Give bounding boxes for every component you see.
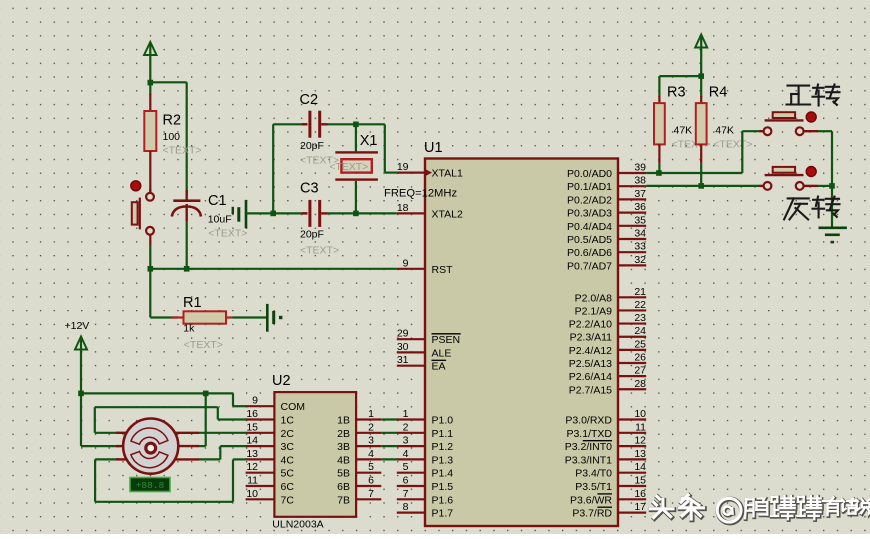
svg-text:14: 14 [634,461,646,473]
+12V label [65,320,90,332]
svg-text:P1.6: P1.6 [432,494,454,506]
pin 13 4C (U2 left) [246,448,295,467]
svg-text:<TEXT>: <TEXT> [329,161,368,173]
resistor R1 [172,311,233,323]
svg-text:1: 1 [368,408,374,420]
svg-text:11: 11 [635,421,646,433]
wire: P0.1 pin38 net to R4 and button SW3 [646,163,760,189]
pin 10 P3.0/RXD (U1 right) [565,408,646,427]
svg-text:39: 39 [634,162,646,174]
resistor R3 [654,96,665,163]
power +5V arrow symbol (top left) [144,42,156,82]
wire: top rail joining R3 R4 [659,73,704,97]
svg-text:13: 13 [246,448,258,460]
svg-text:47K: 47K [674,125,693,137]
op-amp U1 body (8051 MCU) [425,159,618,527]
svg-text:P2.4/A12: P2.4/A12 [569,345,612,357]
svg-text:P0.5/AD5: P0.5/AD5 [567,234,612,246]
svg-text:16: 16 [246,408,258,420]
svg-text:P1.0: P1.0 [432,415,454,427]
pin 3 P1.2 (U1 left) [397,435,453,454]
pin 30 ALE (U1 left) [397,341,452,360]
wire: SW1 bottom to RST rail [149,246,151,269]
svg-text:XTAL2: XTAL2 [432,208,463,220]
pin 34 P0.5/AD5 (U1 right) [567,228,646,247]
svg-text:26: 26 [634,352,646,364]
pin 33 P0.6/AD6 (U1 right) [567,241,646,260]
svg-text:COM: COM [281,401,306,413]
svg-text:3: 3 [403,435,409,447]
R2 labels [163,113,202,157]
wire: power rail to R2 top and C1 branch [148,80,187,195]
svg-text:P0.6/AD6: P0.6/AD6 [567,247,612,259]
svg-text:7C: 7C [281,494,295,506]
svg-text:P1.2: P1.2 [432,441,454,453]
svg-text:3C: 3C [281,441,295,453]
pin 1 1B (U2 right) [337,408,381,427]
svg-text:P2.3/A11: P2.3/A11 [570,332,613,344]
pin 27 P2.6/A14 (U1 right) [569,365,646,384]
svg-text:12: 12 [246,461,258,473]
svg-text:31: 31 [397,354,409,366]
svg-text:P1.4: P1.4 [432,468,454,480]
push-button SW1 (vertical, left) [132,189,154,246]
svg-text:17: 17 [634,501,646,513]
svg-text:U1: U1 [424,140,443,156]
pin 29 PSEN (U1 left) [397,328,461,347]
pin 12 5C (U2 left) [246,461,295,480]
power arrow symbol (top right) [695,35,707,77]
svg-text:1: 1 [403,408,409,420]
svg-text:RST: RST [432,264,454,276]
svg-text:<TEXT>: <TEXT> [184,339,223,351]
svg-text:C3: C3 [300,181,319,197]
pin 35 P0.4/AD4 (U1 right) [567,214,646,233]
svg-text:EA: EA [432,361,446,373]
svg-text:4: 4 [368,448,374,460]
pin 11 6C (U2 left) [246,475,295,494]
svg-text:P0.7/AD7: P0.7/AD7 [567,260,612,272]
svg-text:13: 13 [634,448,646,460]
svg-text:15: 15 [634,475,646,487]
svg-text:5C: 5C [281,468,295,480]
svg-text:C1: C1 [208,193,227,209]
svg-text:34: 34 [634,228,646,240]
U2 value label ULN2003A [272,519,323,531]
pin 23 P2.2/A10 (U1 right) [569,312,646,331]
svg-text:10: 10 [634,408,646,420]
svg-text:6C: 6C [281,481,295,493]
pin 15 2C (U2 left) [246,421,295,440]
svg-text:14: 14 [246,435,258,447]
svg-text:10uF: 10uF [208,214,232,226]
svg-text:ULN2003A: ULN2003A [272,519,323,531]
svg-text:10: 10 [246,488,258,500]
svg-text:30: 30 [397,341,409,353]
wire: motor left-bottom pin loop to U2 4C [95,459,246,501]
svg-text:24: 24 [634,325,646,337]
U1 reference label [424,140,443,156]
svg-text:27: 27 [634,365,646,377]
svg-text:P2.6/A14: P2.6/A14 [569,371,612,383]
svg-text:+12V: +12V [65,320,90,332]
svg-text:11: 11 [247,475,258,487]
svg-text:8: 8 [403,501,409,513]
wire: P0.0 pin39 net to R3 and button SW2 [646,131,760,176]
C3 labels [300,181,339,257]
svg-text:ALE: ALE [432,347,452,359]
wire: RST rail down to R1 [150,269,178,318]
svg-text:4B: 4B [337,454,350,466]
svg-text:P3.4/T0: P3.4/T0 [575,468,612,480]
pin 8 P1.7 (U1 left) [397,501,453,519]
svg-text:37: 37 [634,188,646,200]
svg-text:5B: 5B [337,468,350,480]
pin 3 3B (U2 right) [337,435,381,454]
svg-text:16: 16 [634,488,646,500]
wire: X1 bottom to C3 node [353,181,359,216]
push-button SW3 (reverse) [760,167,819,190]
svg-text:4C: 4C [281,454,295,466]
wire: C2 node down to crystal X1 top [353,122,359,153]
svg-text:P3.3/INT1: P3.3/INT1 [565,454,612,466]
pin 21 P2.0/A8 (U1 right) [575,286,647,305]
pin 2 P1.1 (U1 left) [397,421,453,440]
resistor R4 [696,96,707,163]
svg-text:100: 100 [163,131,181,143]
resistor R2 [144,82,156,162]
svg-text:U2: U2 [272,373,291,389]
pin 2 2B (U2 right) [337,421,381,440]
svg-text:P0.2/AD2: P0.2/AD2 [567,194,612,206]
svg-text:C2: C2 [300,92,319,108]
svg-text:R1: R1 [183,295,202,311]
SW2 red actuator dot [806,112,816,122]
pin 9 COM (U2 left) [246,395,305,414]
pin 39 P0.0/AD0 (U1 right) [567,162,646,181]
svg-text:6: 6 [368,475,374,487]
wire: U2 outputs 1B-4B to U1 P1.0-P1.3 [381,420,397,460]
svg-text:19: 19 [397,161,409,173]
svg-text:P1.1: P1.1 [432,428,454,440]
pin 26 P2.5/A13 (U1 right) [569,352,646,371]
pin 5 5B (U2 right) [337,461,381,480]
svg-text:FREQ=12MHz: FREQ=12MHz [384,188,457,200]
svg-text:P1.3: P1.3 [432,454,454,466]
pin 7 7B (U2 right) [337,488,381,507]
svg-text:35: 35 [634,214,646,226]
svg-text:P2.0/A8: P2.0/A8 [575,292,613,304]
svg-text:R2: R2 [163,113,182,129]
wire: left rail joining C2 and C3 [270,124,276,216]
label reverse (fan zhuan) for SW3 [784,197,839,220]
capacitor C1 (polarized) [172,190,201,269]
pin 4 P1.3 (U1 left) [397,448,453,467]
SW1 red actuator dot [131,181,141,191]
capacitor C3 [273,200,397,227]
pin 14 P3.4/T0 (U1 right) [575,461,646,480]
pin 31 EA (U1 left) [397,354,446,373]
svg-text:2B: 2B [337,428,350,440]
svg-text:P3.5/T1: P3.5/T1 [575,481,612,493]
svg-text:12: 12 [634,435,646,447]
pin 16 P3.6/WR (U1 right) [570,488,646,507]
capacitor C2 [273,111,385,138]
svg-text:P3.0/RXD: P3.0/RXD [565,415,612,427]
wire: RST rail [148,266,397,272]
power +12V arrow symbol [75,337,87,394]
svg-text:<TEXT>: <TEXT> [713,139,752,151]
svg-text:P1.7: P1.7 [432,508,454,520]
svg-text:21: 21 [634,286,646,298]
svg-text:R3: R3 [667,85,686,101]
svg-text:P2.5/A13: P2.5/A13 [569,358,612,370]
driver U2 body (ULN2003A) [274,392,356,517]
wire: C2 node to XTAL1 pin 19 [385,124,398,172]
pin 17 P3.7/RD (U1 right) [572,501,646,519]
stepper motor M1 [116,419,199,474]
R3 labels [667,85,711,151]
FREQ=12MHz label [384,188,457,200]
pin 10 7C (U2 left) [246,488,295,507]
svg-text:P2.2/A10: P2.2/A10 [569,319,612,331]
svg-text:5: 5 [368,461,374,473]
wire: motor right-bottom pin to U2 3C [199,446,247,459]
pin 1 P1.0 (U1 left) [397,408,453,427]
wire: buttons right side to ground [818,131,835,228]
pin 15 P3.5/T1 (U1 right) [575,475,646,494]
svg-text:R4: R4 [709,85,728,101]
svg-text:P3.6/WR: P3.6/WR [570,494,612,506]
svg-text:7: 7 [403,488,409,500]
svg-text:4: 4 [403,448,409,460]
svg-text:<TEXT>: <TEXT> [163,145,202,157]
wire: motor right-top pin to U2 2C [199,432,247,434]
R4 labels [709,85,753,151]
svg-text:36: 36 [634,201,646,213]
wire: +12V rail (L1) to COM with junctions [78,391,246,407]
pin 32 P0.7/AD7 (U1 right) [567,254,646,273]
X1 labels [329,133,377,173]
svg-text:3B: 3B [337,441,350,453]
push-button SW2 (forward) [760,112,819,135]
wire: +12V down to motor left-centre pin [81,393,120,446]
pin 19 XTAL1 (U1 left) [397,161,463,180]
pin 36 P0.3/AD3 (U1 right) [567,201,646,220]
battery cell symbol right of R1 [267,304,282,332]
svg-text:P2.1/A9: P2.1/A9 [575,305,613,317]
svg-text:33: 33 [634,241,646,253]
svg-text:<TEXT>: <TEXT> [300,245,339,257]
svg-text:3: 3 [368,435,374,447]
svg-text:2C: 2C [281,428,295,440]
svg-text:2: 2 [368,421,374,433]
svg-text:PSEN: PSEN [432,334,461,346]
svg-text:P3.2/INT0: P3.2/INT0 [565,441,612,453]
wire: R2 bottom to push-button SW1 [149,162,151,193]
wire: motor left-top pin to U2 1C (via L2) [95,407,247,433]
svg-text:7B: 7B [337,494,350,506]
svg-text:25: 25 [634,338,646,350]
pin 11 P3.1/TXD (U1 right) [566,421,646,440]
svg-text:6B: 6B [337,481,350,493]
battery cell symbol right of C1 [233,200,273,228]
C1 labels [208,193,248,240]
pin 37 P0.2/AD2 (U1 right) [567,188,646,207]
svg-text:P0.0/AD0: P0.0/AD0 [567,168,612,180]
svg-text:15: 15 [246,421,258,433]
svg-text:<TEXT>: <TEXT> [208,228,247,240]
motor speed display (green LCD) [130,478,170,492]
label forward (zheng zhuan) for SW2 [787,85,840,106]
pin 4 4B (U2 right) [337,448,381,467]
pin 28 P2.7/A15 (U1 right) [569,378,646,397]
pin 24 P2.3/A11 (U1 right) [570,325,647,344]
svg-text:7: 7 [368,488,374,500]
SW3 red actuator dot [806,167,816,177]
svg-text:P3.1/TXD: P3.1/TXD [566,428,612,440]
svg-text:P0.4/AD4: P0.4/AD4 [567,221,612,233]
svg-text:P2.7/A15: P2.7/A15 [569,384,612,396]
svg-text:1B: 1B [337,415,350,427]
pin 6 P1.5 (U1 left) [397,475,453,494]
svg-text:P1.5: P1.5 [432,481,454,493]
svg-text:1C: 1C [281,415,295,427]
pin 25 P2.4/A12 (U1 right) [569,338,646,357]
U2 reference label [272,373,291,389]
wire: R1 to battery cell [233,316,267,318]
svg-text:20pF: 20pF [300,229,324,241]
svg-text:47K: 47K [715,125,734,137]
pin 14 3C (U2 left) [246,435,295,454]
pin 18 XTAL2 (U1 left) [397,202,463,221]
pin 22 P2.1/A9 (U1 right) [575,299,647,318]
pin 16 1C (U2 left) [246,408,295,427]
svg-text:23: 23 [634,312,646,324]
pin 5 P1.4 (U1 left) [397,461,453,480]
svg-text:38: 38 [634,175,646,187]
R1 labels [183,295,223,351]
pin 9 RST (U1 left) [397,257,453,276]
svg-text:P0.3/AD3: P0.3/AD3 [567,208,612,220]
svg-text:P3.7/RD: P3.7/RD [572,508,612,520]
svg-text:P0.1/AD1: P0.1/AD1 [567,181,612,193]
svg-text:X1: X1 [360,133,378,149]
pin 13 P3.3/INT1 (U1 right) [565,448,646,467]
svg-text:5: 5 [403,461,409,473]
svg-text:28: 28 [634,378,646,390]
svg-text:20pF: 20pF [300,140,324,152]
svg-text:18: 18 [397,202,409,214]
pin 6 6B (U2 right) [337,475,381,494]
svg-text:29: 29 [397,328,409,340]
svg-text:+88.8: +88.8 [136,480,165,491]
svg-text:6: 6 [403,475,409,487]
svg-text:XTAL1: XTAL1 [432,168,463,180]
crystal X1 [335,151,378,181]
svg-text:22: 22 [634,299,646,311]
svg-text:32: 32 [634,254,646,266]
ground symbol [819,228,847,244]
svg-text:2: 2 [403,421,409,433]
svg-text:9: 9 [403,257,409,269]
watermark: toutiao @pengdundun youhuashuo [651,495,870,523]
svg-text:9: 9 [252,395,258,407]
svg-text:1k: 1k [183,323,195,335]
pin 38 P0.1/AD1 (U1 right) [567,175,646,194]
pin 7 P1.6 (U1 left) [397,488,453,507]
C2 labels [300,92,340,167]
wire: motor right-centre pin up to +12V rail [199,393,206,446]
pin 12 P3.2/INT0 (U1 right) [565,435,646,454]
